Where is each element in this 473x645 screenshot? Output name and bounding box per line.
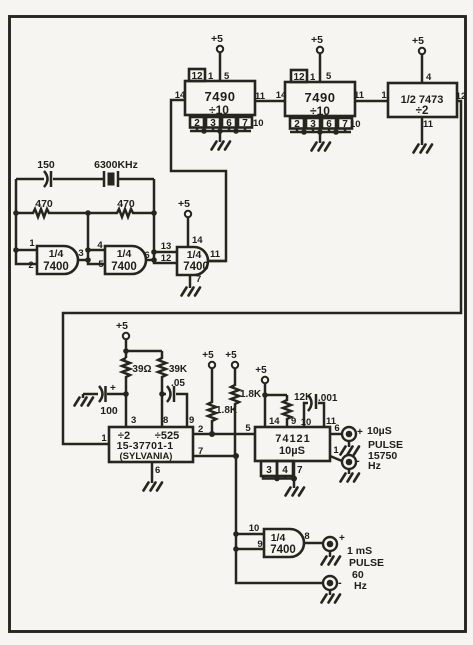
resistor R2 470 [88, 198, 154, 217]
wire oscillator output to U2 pin14 [171, 100, 226, 261]
svg-text:2: 2 [294, 119, 300, 130]
U6 pin 3 box [261, 461, 277, 476]
ground J4 [329, 590, 332, 595]
ground U5 [144, 483, 163, 491]
jack J3 output [323, 533, 345, 551]
svg-text:(SYLVANIA): (SYLVANIA) [120, 451, 173, 462]
svg-text:6: 6 [155, 465, 160, 476]
ground U4 [414, 145, 433, 153]
svg-text:8: 8 [304, 531, 309, 542]
ground J1 [348, 441, 351, 447]
ground J3 [329, 551, 332, 557]
jack J4 return [323, 576, 342, 590]
svg-text:100: 100 [100, 405, 118, 417]
svg-text:÷10: ÷10 [209, 103, 229, 117]
svg-text:3: 3 [78, 248, 83, 259]
U5 pin 6 wire [151, 462, 154, 483]
jack J1 output [342, 427, 363, 441]
capacitor C4 .05 [159, 378, 187, 427]
svg-text:1: 1 [208, 71, 214, 82]
IC U4 7473 [381, 83, 466, 130]
svg-text:7400: 7400 [111, 261, 137, 273]
svg-text:+: + [357, 427, 363, 438]
svg-text:9: 9 [257, 539, 262, 550]
+5 terminal for R6 [225, 350, 238, 368]
U5 pin 3 wire [125, 394, 128, 427]
svg-text:14: 14 [269, 416, 280, 427]
svg-text:+: + [339, 533, 345, 544]
svg-text:6: 6 [334, 423, 339, 434]
U3 pin 2 box [290, 118, 304, 130]
resistor R4 39K [158, 351, 188, 427]
svg-text:13: 13 [161, 241, 172, 252]
resistor R1 470 [16, 198, 88, 217]
svg-text:7: 7 [297, 465, 303, 476]
IC U6 74121 [255, 427, 330, 461]
wire left vertical [13, 179, 37, 264]
svg-text:6300KHz: 6300KHz [94, 159, 138, 171]
U1c pin 7 wire [190, 274, 201, 288]
svg-text:7490: 7490 [205, 89, 236, 104]
svg-text:1: 1 [101, 433, 107, 444]
U4 pin 11 wire [421, 117, 424, 145]
U3 pin 3 box [306, 118, 320, 130]
U3 pin 6 box [322, 118, 336, 130]
svg-text:7400: 7400 [183, 261, 209, 273]
gate U1a 1/4 7400 [28, 238, 88, 274]
svg-text:10: 10 [253, 118, 264, 129]
U2 pin 6 box [222, 117, 236, 129]
svg-text:6: 6 [226, 118, 232, 129]
svg-text:7400: 7400 [43, 261, 69, 273]
svg-text:11: 11 [354, 90, 365, 101]
ground U1c [182, 288, 201, 296]
svg-text:7400: 7400 [270, 544, 296, 556]
wire U3 pin11 to U4 pin1 [355, 100, 388, 103]
wire feedback loop U4 pin12 to U5 pin1 [63, 101, 461, 444]
wire U2 pin11 to U3 pin14 [255, 100, 285, 103]
IC U3 7490 #2 [276, 70, 365, 118]
resistor R3 39ohm [122, 358, 152, 394]
+5 terminal for U1c [178, 198, 203, 247]
svg-text:10µS: 10µS [279, 445, 305, 457]
svg-text:5: 5 [326, 71, 332, 82]
svg-text:1.8K: 1.8K [240, 389, 262, 400]
svg-text:10µS: 10µS [367, 425, 392, 437]
gate U1b 1/4 7400 [97, 240, 154, 274]
+5 terminal for R5 [202, 350, 215, 368]
svg-text:÷10: ÷10 [310, 104, 330, 118]
jack J2 return [342, 455, 360, 469]
svg-text:.001: .001 [318, 393, 338, 404]
svg-text:3: 3 [310, 119, 316, 130]
wire U5 pin7 net vertical [233, 456, 322, 583]
svg-text:1/4: 1/4 [49, 248, 64, 260]
svg-text:7490: 7490 [305, 90, 336, 105]
svg-text:+5: +5 [178, 198, 190, 210]
resistor R5 1.8K [208, 369, 238, 435]
svg-text:39K: 39K [169, 364, 188, 375]
svg-text:1/4: 1/4 [187, 249, 202, 261]
svg-text:3: 3 [210, 118, 216, 129]
svg-text:1 mS: 1 mS [347, 545, 372, 557]
crystal Y1 6300KHz [94, 159, 154, 187]
svg-text:3: 3 [131, 415, 136, 426]
gate U1d 1/4 7400 [249, 523, 322, 557]
svg-text:1/4: 1/4 [117, 248, 132, 260]
svg-text:Hz: Hz [368, 460, 381, 472]
svg-text:+5: +5 [311, 34, 323, 46]
svg-text:+5: +5 [225, 350, 237, 361]
svg-text:470: 470 [35, 198, 53, 210]
svg-text:+5: +5 [202, 350, 214, 361]
U5 pin 7 wire [193, 453, 239, 459]
U5 pin 2 wire to U6 pin 5 [193, 423, 255, 437]
capacitor C5 .001 [301, 393, 338, 428]
IC U5 Sylvania divider [101, 415, 203, 476]
svg-text:+5: +5 [412, 35, 424, 47]
U3 bottom bus wire [290, 129, 351, 144]
svg-text:74121: 74121 [275, 433, 311, 445]
svg-text:4: 4 [97, 240, 103, 251]
U6 pin 1 wire [330, 445, 342, 461]
IC U2 7490 #1 [175, 69, 266, 117]
+5 terminal for U4 [412, 35, 432, 83]
svg-text:+5: +5 [211, 33, 223, 45]
capacitor C1 150 [16, 159, 104, 187]
svg-text:12: 12 [191, 71, 203, 82]
svg-text:8: 8 [163, 415, 168, 426]
svg-text:-: - [356, 455, 360, 467]
svg-text:1: 1 [310, 72, 316, 83]
ground C3 [82, 394, 85, 398]
+5 terminal for U3 [311, 34, 332, 82]
svg-text:3: 3 [266, 465, 272, 476]
svg-text:11: 11 [423, 119, 434, 130]
svg-text:5: 5 [245, 423, 251, 434]
resistor R7 12K [265, 392, 313, 427]
svg-text:14: 14 [276, 90, 287, 101]
U2 pin 3 box [206, 117, 220, 129]
svg-text:2: 2 [194, 118, 200, 129]
U6 pin 4 box [277, 461, 303, 476]
gate U1c 1/4 7400 [161, 241, 226, 275]
svg-text:14: 14 [192, 235, 203, 246]
ground U2 [212, 142, 231, 150]
ground U3 [312, 143, 331, 151]
svg-text:11: 11 [210, 249, 221, 260]
svg-text:150: 150 [37, 159, 55, 171]
svg-text:12: 12 [293, 72, 305, 83]
svg-text:Hz: Hz [354, 580, 367, 592]
wire middle vertical [85, 210, 105, 264]
U3 pin 7 box [338, 118, 361, 130]
svg-text:10: 10 [249, 523, 260, 534]
svg-text:39Ω: 39Ω [132, 364, 151, 375]
svg-text:+5: +5 [116, 320, 128, 332]
svg-text:1: 1 [29, 238, 35, 249]
svg-text:-: - [338, 577, 342, 589]
+5 terminal for U5 [116, 320, 162, 358]
svg-text:9: 9 [291, 416, 296, 427]
svg-text:1: 1 [333, 445, 339, 456]
svg-text:5: 5 [98, 259, 104, 270]
U2 pin 7 box [238, 117, 264, 129]
svg-text:9: 9 [189, 415, 194, 426]
svg-text:7: 7 [242, 118, 248, 129]
svg-text:7: 7 [342, 119, 348, 130]
ground U6 [286, 488, 305, 496]
svg-text:PULSE: PULSE [349, 557, 384, 569]
svg-text:2: 2 [28, 260, 33, 271]
+5 terminal for U6 [255, 365, 280, 427]
resistor R6 1.8K [231, 369, 262, 457]
svg-text:12: 12 [161, 253, 172, 264]
svg-text:÷2: ÷2 [416, 105, 429, 117]
U6 pin 6 wire [330, 423, 342, 434]
svg-text:6: 6 [326, 119, 332, 130]
U2 bottom bus wire [190, 128, 251, 143]
U6 bottom bus wire [263, 461, 297, 488]
svg-text:4: 4 [282, 465, 288, 476]
label 1 mS PULSE 60 Hz [347, 545, 384, 592]
svg-text:7: 7 [196, 274, 201, 285]
ground J2 [348, 469, 351, 474]
svg-text:1: 1 [381, 90, 387, 101]
svg-text:1/4: 1/4 [271, 532, 286, 544]
U2 pin 2 box [190, 117, 204, 129]
svg-text:+5: +5 [255, 365, 267, 376]
+5 terminal for U2 [211, 33, 230, 82]
svg-text:+: + [110, 383, 116, 394]
svg-text:4: 4 [426, 72, 432, 83]
capacitor C3 100 electrolytic [83, 383, 129, 417]
label 10uS PULSE 15750 Hz [367, 425, 403, 472]
svg-text:10: 10 [350, 119, 361, 130]
wire right vertical [151, 179, 177, 263]
